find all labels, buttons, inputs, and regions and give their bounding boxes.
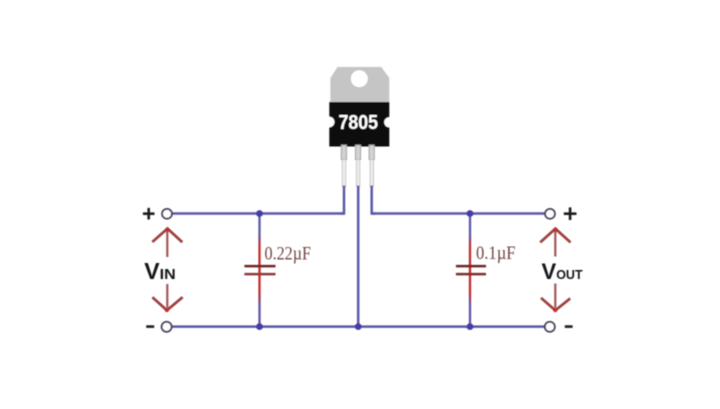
Vin up arrow [152, 227, 182, 257]
junction input-cap bottom [256, 323, 263, 330]
U1 right notch [384, 117, 394, 127]
input plus sign [143, 208, 155, 220]
svg-text:7805: 7805 [339, 111, 379, 134]
svg-text:0.1µF: 0.1µF [476, 244, 516, 264]
U1 pin 1 stub [341, 145, 346, 160]
U1 mounting hole [351, 70, 368, 87]
capacitor C2 lead [469, 214, 471, 327]
Vout down arrow [541, 284, 570, 313]
capacitor C1 plates [244, 266, 275, 274]
Vout up arrow [540, 227, 570, 256]
terminal input + [162, 209, 172, 219]
U1 pin 2 lead [356, 160, 360, 187]
output minus sign [565, 325, 573, 328]
U1 left notch [324, 117, 335, 128]
junction output-cap top [467, 210, 474, 217]
U1 pin 3 stub [369, 145, 374, 160]
junction ground bottom [355, 323, 362, 330]
svg-text:0.22µF: 0.22µF [265, 244, 312, 264]
U1 pin 1 lead [342, 160, 346, 187]
capacitor C1 lead [258, 214, 260, 327]
wire pin2 ground lead down [357, 186, 360, 327]
junction output-cap bottom [467, 323, 474, 330]
U1 pin 3 lead [370, 160, 374, 187]
terminal output - [545, 322, 555, 332]
wire output top rail [372, 212, 546, 215]
output plus sign [564, 207, 577, 220]
regulator U1 tab [330, 67, 389, 104]
wire pin3 down to output rail [372, 186, 375, 214]
terminal input - [162, 322, 172, 332]
terminal output + [545, 209, 555, 219]
junction input-cap top [256, 210, 263, 217]
wire bottom common rail [172, 325, 546, 328]
wire pin1 down to input rail [341, 186, 344, 214]
wire input top rail [172, 212, 344, 215]
Vin down arrow [152, 284, 182, 312]
U1 pin 2 stub [355, 145, 360, 160]
input minus sign [146, 325, 154, 328]
capacitor C2 plates [456, 266, 486, 274]
U1 body [329, 102, 389, 147]
